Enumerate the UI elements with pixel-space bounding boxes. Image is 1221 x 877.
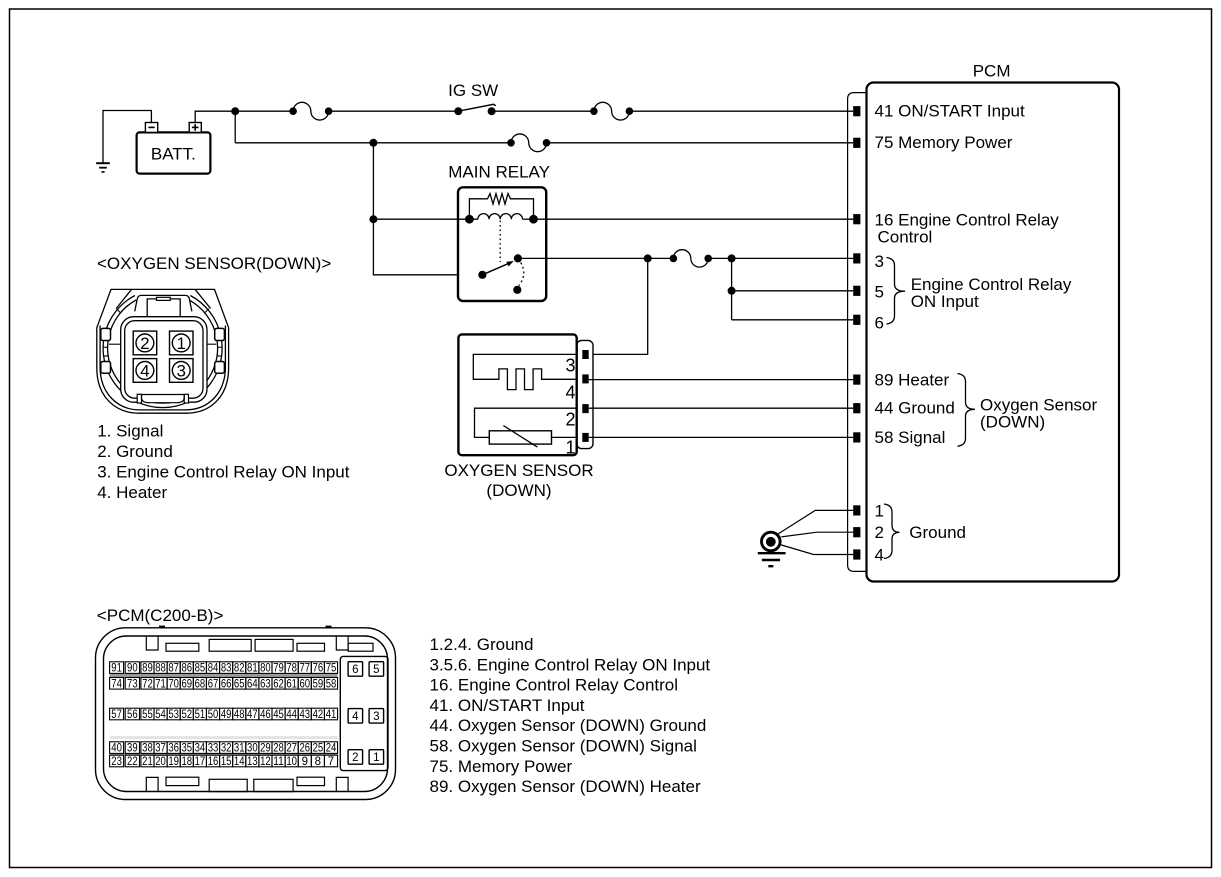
C200-B cavity 1	[369, 750, 384, 765]
wire to PCM pin 75	[547, 142, 854, 144]
svg-text:4: 4	[140, 362, 149, 381]
brace engine control relay ON input	[887, 258, 906, 325]
svg-text:57: 57	[111, 709, 122, 721]
svg-text:ON Input: ON Input	[911, 292, 979, 311]
wire node C to relay coil	[373, 218, 469, 220]
oxygen sensor connector face view	[97, 289, 229, 413]
oxygen sensor box	[458, 334, 576, 455]
node C junction	[369, 215, 377, 223]
svg-text:56: 56	[127, 709, 138, 721]
svg-text:2: 2	[140, 334, 149, 353]
svg-text:54: 54	[155, 709, 166, 721]
C200-B cavity 3	[369, 709, 384, 724]
node F junction	[728, 287, 736, 295]
svg-text:70: 70	[168, 678, 179, 690]
battery ground symbol	[96, 111, 151, 172]
C200-B pin row 57-41	[110, 708, 338, 720]
svg-text:59: 59	[313, 678, 324, 690]
wire oxygen sensor pin 1 to PCM pin 58	[589, 436, 854, 438]
node B junction	[369, 139, 377, 147]
svg-text:63: 63	[260, 678, 271, 690]
node A junction	[231, 107, 239, 115]
svg-text:1.2.4. Ground: 1.2.4. Ground	[430, 635, 534, 654]
svg-text:88: 88	[155, 663, 166, 675]
PCM pin 5	[853, 286, 860, 296]
relay coil	[458, 214, 538, 224]
svg-text:64: 64	[247, 678, 258, 690]
svg-text:58. Oxygen Sensor (DOWN) Signa: 58. Oxygen Sensor (DOWN) Signal	[430, 737, 697, 756]
oxygen sensor connector strip	[577, 340, 593, 448]
svg-text:25: 25	[313, 743, 324, 755]
wire oxygen sensor pin 4 to PCM pin 89	[589, 379, 854, 381]
svg-text:86: 86	[181, 663, 192, 675]
svg-text:3: 3	[176, 362, 185, 381]
svg-text:65: 65	[234, 678, 245, 690]
svg-text:36: 36	[168, 743, 179, 755]
svg-text:1: 1	[565, 438, 575, 458]
svg-text:75. Memory Power: 75. Memory Power	[430, 757, 573, 776]
wire battery plus to node A	[195, 111, 235, 122]
svg-text:37: 37	[155, 743, 166, 755]
svg-text:31: 31	[234, 743, 245, 755]
inline connector on IG wire	[289, 107, 297, 115]
inline connector on ON/START wire	[590, 107, 598, 115]
svg-text:8: 8	[315, 756, 321, 768]
svg-text:75: 75	[326, 663, 337, 675]
svg-text:89. Oxygen Sensor (DOWN) Heate: 89. Oxygen Sensor (DOWN) Heater	[430, 777, 701, 796]
svg-text:4: 4	[565, 383, 575, 403]
C200-B pin row separator	[110, 673, 338, 677]
svg-text:43: 43	[299, 709, 310, 721]
svg-text:41. ON/START Input: 41. ON/START Input	[430, 696, 585, 715]
svg-text:1: 1	[176, 334, 185, 353]
wire to PCM pin 6	[732, 319, 854, 321]
svg-text:PCM: PCM	[973, 61, 1011, 80]
PCM connector strip	[848, 93, 867, 572]
svg-text:22: 22	[127, 756, 138, 768]
ground symbol chassis	[758, 532, 786, 566]
svg-text:15: 15	[221, 756, 232, 768]
connector cavity 3	[170, 359, 194, 383]
svg-text:55: 55	[142, 709, 153, 721]
svg-text:23: 23	[111, 756, 122, 768]
svg-text:6: 6	[875, 314, 884, 333]
brace ground pins	[884, 504, 900, 559]
svg-text:85: 85	[195, 663, 206, 675]
relay resistor	[469, 194, 533, 215]
PCM box	[867, 83, 1120, 582]
svg-text:52: 52	[181, 709, 192, 721]
node E junction	[728, 254, 736, 262]
svg-text:77: 77	[299, 663, 310, 675]
wire relay coil to PCM pin 16	[534, 218, 854, 220]
PCM pin 75	[853, 138, 860, 148]
svg-text:44 Ground: 44 Ground	[875, 399, 955, 418]
svg-text:21: 21	[142, 756, 153, 768]
svg-text:BATT.: BATT.	[151, 144, 196, 163]
svg-text:89 Heater: 89 Heater	[875, 371, 950, 390]
wire node A to connector	[235, 110, 293, 112]
svg-text:49: 49	[221, 709, 232, 721]
wire memory power run	[235, 142, 511, 144]
svg-text:3.5.6. Engine Control Relay ON: 3.5.6. Engine Control Relay ON Input	[430, 655, 711, 674]
svg-text:76: 76	[313, 663, 324, 675]
svg-text:2: 2	[875, 523, 884, 542]
svg-text:16: 16	[208, 756, 219, 768]
svg-text:44. Oxygen Sensor (DOWN) Groun: 44. Oxygen Sensor (DOWN) Ground	[430, 716, 707, 735]
C200-B cavity 2	[348, 750, 363, 765]
switch IG SW	[454, 104, 496, 115]
svg-text:80: 80	[260, 663, 271, 675]
svg-text:2. Ground: 2. Ground	[97, 442, 173, 461]
oxygen sensor heater element	[473, 354, 576, 389]
svg-text:67: 67	[208, 678, 219, 690]
PCM pin 1	[853, 505, 860, 515]
svg-text:(DOWN): (DOWN)	[486, 481, 551, 500]
svg-text:73: 73	[127, 678, 138, 690]
wire node B down to relay	[373, 143, 482, 275]
oxygen sensor sensing cell	[475, 408, 577, 447]
svg-text:87: 87	[168, 663, 179, 675]
svg-text:66: 66	[221, 678, 232, 690]
wire relay output	[518, 257, 648, 259]
svg-text:30: 30	[247, 743, 258, 755]
wire ground to PCM pin 1	[778, 510, 853, 534]
svg-text:89: 89	[142, 663, 153, 675]
svg-text:14: 14	[234, 756, 245, 768]
svg-text:45: 45	[273, 709, 284, 721]
svg-text:12: 12	[260, 756, 271, 768]
svg-text:75 Memory Power: 75 Memory Power	[875, 133, 1013, 152]
svg-text:40: 40	[111, 743, 122, 755]
svg-text:62: 62	[273, 678, 284, 690]
svg-text:39: 39	[127, 743, 138, 755]
svg-text:91: 91	[111, 663, 122, 675]
svg-text:79: 79	[273, 663, 284, 675]
svg-text:29: 29	[260, 743, 271, 755]
wire node E down branch	[731, 258, 733, 319]
svg-text:72: 72	[142, 678, 153, 690]
svg-text:32: 32	[221, 743, 232, 755]
svg-text:84: 84	[208, 663, 219, 675]
PCM pin 2	[853, 527, 860, 537]
svg-text:47: 47	[247, 709, 258, 721]
svg-text:44: 44	[286, 709, 297, 721]
svg-text:90: 90	[127, 663, 138, 675]
relay MAIN RELAY box	[458, 187, 546, 301]
PCM pin 58	[853, 432, 860, 442]
svg-text:IG SW: IG SW	[448, 81, 498, 100]
wire to PCM pin 5	[732, 290, 854, 292]
C200-B pin row 40-24	[110, 742, 338, 754]
connector cavity 2	[133, 331, 157, 355]
wire to IG SW	[329, 110, 459, 112]
svg-text:20: 20	[155, 756, 166, 768]
C200-B pin row 23-7	[110, 755, 338, 767]
C200-B cavity 4	[348, 709, 363, 724]
svg-text:60: 60	[299, 678, 310, 690]
node D junction	[644, 254, 652, 262]
svg-text:13: 13	[247, 756, 258, 768]
connector cavity 1	[170, 331, 194, 355]
svg-text:Control: Control	[878, 227, 933, 246]
svg-text:82: 82	[234, 663, 245, 675]
svg-text:46: 46	[260, 709, 271, 721]
svg-text:26: 26	[299, 743, 310, 755]
housing bottom tabs	[146, 777, 348, 791]
PCM pin 6	[853, 315, 860, 325]
svg-text:16. Engine Control Relay Contr: 16. Engine Control Relay Control	[430, 676, 679, 695]
PCM pin 44	[853, 403, 860, 413]
wire node D to connector	[648, 257, 674, 259]
svg-text:11: 11	[273, 756, 284, 768]
svg-text:33: 33	[208, 743, 219, 755]
wire node A down to memory power wire	[234, 111, 236, 143]
svg-text:4. Heater: 4. Heater	[97, 483, 167, 502]
svg-text:38: 38	[142, 743, 153, 755]
svg-text:58 Signal: 58 Signal	[875, 428, 946, 447]
svg-text:4: 4	[352, 711, 359, 723]
svg-text:83: 83	[221, 663, 232, 675]
housing top tabs	[146, 637, 373, 652]
svg-text:41: 41	[326, 709, 337, 721]
wire oxygen sensor pin 2 to PCM pin 44	[589, 407, 854, 409]
svg-text:48: 48	[234, 709, 245, 721]
svg-text:2: 2	[565, 410, 575, 430]
svg-text:51: 51	[195, 709, 206, 721]
svg-text:24: 24	[326, 743, 337, 755]
svg-text:58: 58	[326, 678, 337, 690]
svg-text:3: 3	[373, 711, 379, 723]
inline connector on relay ON wire	[670, 255, 678, 263]
oxygen sensor connector pins	[582, 350, 588, 442]
svg-text:61: 61	[286, 678, 297, 690]
wire IG SW to connector	[492, 110, 594, 112]
relay actuation dotted line	[499, 221, 501, 263]
svg-text:<OXYGEN SENSOR(DOWN)>: <OXYGEN SENSOR(DOWN)>	[97, 254, 331, 273]
svg-text:50: 50	[208, 709, 219, 721]
wire to PCM pin 41	[629, 110, 853, 112]
wire node D down to oxygen sensor pin 3	[589, 258, 648, 354]
svg-text:1: 1	[373, 752, 379, 764]
svg-text:5: 5	[875, 282, 884, 301]
svg-text:3: 3	[565, 355, 575, 375]
svg-text:MAIN RELAY: MAIN RELAY	[448, 163, 550, 182]
svg-text:34: 34	[195, 743, 206, 755]
svg-text:4: 4	[875, 545, 884, 564]
svg-text:81: 81	[247, 663, 258, 675]
PCM pin 16	[853, 214, 860, 224]
PCM pin 41	[853, 106, 860, 116]
wire connector to node E	[708, 257, 731, 259]
PCM pin 3	[853, 253, 860, 263]
svg-text:OXYGEN SENSOR: OXYGEN SENSOR	[444, 461, 593, 480]
wire ground to PCM pin 2	[781, 532, 853, 537]
svg-text:(DOWN): (DOWN)	[980, 413, 1045, 432]
svg-text:69: 69	[181, 678, 192, 690]
C200-B sub connector box	[340, 656, 388, 770]
PCM pin 4	[853, 549, 860, 559]
svg-text:68: 68	[195, 678, 206, 690]
PCM C200-B housing	[96, 628, 396, 800]
svg-text:6: 6	[352, 664, 358, 676]
C200-B cavity 6	[348, 662, 363, 677]
svg-text:7: 7	[328, 756, 334, 768]
C200-B cavity 5	[369, 662, 384, 677]
svg-text:41 ON/START Input: 41 ON/START Input	[875, 102, 1026, 121]
housing top ticks	[159, 626, 165, 629]
svg-text:71: 71	[155, 678, 166, 690]
svg-text:18: 18	[181, 756, 192, 768]
svg-text:74: 74	[111, 678, 122, 690]
svg-text:1. Signal: 1. Signal	[97, 422, 163, 441]
svg-text:2: 2	[352, 752, 358, 764]
svg-text:19: 19	[168, 756, 179, 768]
PCM pin 89	[853, 375, 860, 385]
svg-text:78: 78	[286, 663, 297, 675]
connector cavity 4	[133, 359, 157, 383]
brace oxygen sensor down	[958, 374, 976, 447]
svg-text:Ground: Ground	[909, 523, 966, 542]
svg-text:3. Engine Control Relay ON Inp: 3. Engine Control Relay ON Input	[97, 463, 350, 482]
svg-text:27: 27	[286, 743, 297, 755]
svg-text:53: 53	[168, 709, 179, 721]
svg-text:17: 17	[195, 756, 206, 768]
svg-text:1: 1	[875, 501, 884, 520]
relay switch	[478, 254, 523, 294]
svg-text:10: 10	[286, 756, 297, 768]
wire node E to PCM pin 3	[732, 257, 854, 259]
C200-B pin row 74-58	[110, 678, 338, 690]
svg-text:35: 35	[181, 743, 192, 755]
wire ground to PCM pin 4	[780, 545, 853, 555]
svg-text:3: 3	[875, 252, 884, 271]
svg-text:9: 9	[302, 756, 308, 768]
svg-text:28: 28	[273, 743, 284, 755]
C200-B pin row 91-75	[110, 662, 338, 674]
svg-text:42: 42	[313, 709, 324, 721]
inline connector on memory power wire	[507, 139, 515, 147]
svg-text:<PCM(C200-B)>: <PCM(C200-B)>	[97, 606, 224, 625]
battery BATT.	[137, 123, 211, 174]
svg-text:5: 5	[373, 664, 379, 676]
